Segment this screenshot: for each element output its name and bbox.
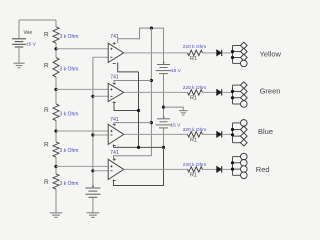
- svg-text:Blue: Blue: [258, 127, 273, 136]
- LED indicator 4 chain 4: [233, 174, 241, 176]
- battery V2 15 V positive supply: [163, 62, 165, 64]
- wire resistor to diode chain 3: [203, 133, 217, 135]
- diode D2: [217, 89, 222, 95]
- svg-text:R1: R1: [190, 137, 197, 143]
- op-amp U2 741: [108, 83, 124, 101]
- node junction J3: [54, 129, 57, 132]
- svg-text:R: R: [44, 63, 49, 70]
- wire diode to indicator bus chain 1: [222, 52, 233, 54]
- node V+ tap op3: [150, 121, 153, 124]
- LED indicator 3 chain 3: [233, 135, 241, 137]
- diode D1: [217, 50, 222, 56]
- svg-text:3 k Ohm: 3 k Ohm: [60, 148, 79, 154]
- svg-text:220 k Ohm: 220 k Ohm: [183, 85, 206, 91]
- svg-text:15 V: 15 V: [171, 123, 182, 129]
- svg-text:220 k Ohm: 220 k Ohm: [183, 127, 206, 133]
- LED indicator 2 chain 2: [233, 90, 241, 92]
- op-amp U3 741: [108, 124, 124, 144]
- wire op1 V+ to top rail: [118, 28, 164, 64]
- node junction J4: [54, 165, 57, 168]
- wire J1 to op1 + input: [56, 48, 109, 50]
- svg-text:Vee: Vee: [24, 30, 33, 36]
- svg-text:R1: R1: [190, 172, 197, 178]
- svg-text:R: R: [44, 32, 49, 39]
- node V- bus bottom: [137, 146, 140, 149]
- wire J2 to op2 + input: [56, 88, 109, 90]
- wire op1 V- to bus: [118, 63, 139, 72]
- svg-text:741: 741: [110, 117, 119, 123]
- wire op4 output: [124, 168, 188, 170]
- node indicator bus junction chain 3: [231, 128, 234, 131]
- diode D3: [217, 131, 222, 137]
- wire J3 to op3 + input: [56, 130, 109, 132]
- node bus tap op4: [91, 169, 94, 172]
- svg-text:220 k Ohm: 220 k Ohm: [183, 162, 206, 168]
- ground under input source: [87, 212, 100, 214]
- node V+ tap op2: [150, 79, 153, 82]
- LED indicator 2 chain 3: [233, 129, 241, 131]
- battery V1 Vee: [18, 20, 20, 38]
- wire indicator bus chain 3: [232, 123, 234, 143]
- node junction J1: [54, 47, 57, 50]
- diode D4: [217, 166, 222, 172]
- node bus tap op2: [91, 95, 94, 98]
- ground under V1: [13, 62, 24, 64]
- svg-text:15 V: 15 V: [26, 42, 37, 48]
- LED indicator 3 chain 4: [233, 168, 241, 170]
- wire indicator bus chain 1: [232, 46, 234, 64]
- wire op3 output: [124, 133, 188, 135]
- wire op4 V- return: [114, 147, 164, 185]
- LED indicator 4 chain 1: [233, 62, 241, 64]
- svg-text:R1: R1: [190, 95, 197, 101]
- wire from Vee battery to ladder top: [19, 19, 56, 21]
- LED indicator 1 chain 3: [233, 122, 241, 124]
- node V- bus tap op2: [137, 109, 140, 112]
- node indicator bus junction chain 3: [231, 133, 234, 136]
- wire inverting-input bus: [93, 56, 109, 58]
- LED indicator 4 chain 2: [233, 103, 241, 105]
- node bus tap op3: [91, 133, 94, 136]
- wire V+ tap to op3: [114, 123, 151, 125]
- wire V+ bus end to op4: [114, 156, 152, 160]
- svg-text:220 k Ohm: 220 k Ohm: [183, 44, 206, 50]
- node junction J2: [54, 88, 57, 91]
- svg-text:Yellow: Yellow: [260, 49, 282, 58]
- svg-text:R: R: [44, 107, 49, 114]
- battery V3 15 V negative supply: [163, 116, 165, 118]
- ground of supply midpoint: [179, 110, 188, 112]
- node indicator bus junction chain 1: [231, 50, 234, 53]
- ground under ladder: [50, 212, 63, 214]
- resistor R1 220 k Ohm chain 2: [188, 90, 203, 95]
- wire diode to indicator bus chain 2: [222, 91, 233, 93]
- op-amp U4 741: [108, 159, 124, 179]
- svg-text:15 V: 15 V: [171, 68, 182, 74]
- node indicator bus junction chain 4: [231, 161, 234, 164]
- node indicator bus junction chain 2: [231, 96, 234, 99]
- wire V+ bus: [150, 28, 152, 156]
- resistor R1 220 k Ohm chain 1: [188, 50, 203, 55]
- resistor R ladder 1 3 k Ohm: [53, 27, 59, 43]
- wire resistor to diode chain 4: [203, 168, 217, 170]
- wire midpoint to ground: [164, 107, 184, 110]
- node indicator bus junction chain 1: [231, 56, 234, 59]
- node top rail junction: [150, 27, 153, 30]
- resistor R ladder 4 3 k Ohm: [53, 142, 59, 157]
- svg-text:3 k Ohm: 3 k Ohm: [60, 112, 79, 118]
- node indicator bus junction chain 2: [231, 90, 234, 93]
- wire op2 output: [124, 91, 188, 93]
- svg-text:R1: R1: [190, 56, 197, 62]
- node supply midpoint: [162, 106, 165, 109]
- resistor R ladder 2 3 k Ohm: [53, 58, 59, 78]
- wire diode to indicator bus chain 3: [222, 133, 233, 135]
- svg-text:3 k Ohm: 3 k Ohm: [60, 34, 79, 40]
- LED indicator 2 chain 1: [233, 51, 241, 53]
- resistor R1 220 k Ohm chain 3: [188, 132, 203, 137]
- wire indicator bus chain 2: [232, 85, 234, 104]
- wire op2 V- to bus: [114, 102, 139, 111]
- resistor R1 220 k Ohm chain 4: [188, 167, 203, 172]
- wire op3 V- across to supply: [114, 146, 164, 148]
- svg-text:R: R: [44, 179, 49, 186]
- wire J4 to op4 + input: [56, 165, 109, 167]
- svg-text:Red: Red: [256, 165, 270, 174]
- LED indicator 3 chain 1: [233, 57, 241, 59]
- wire resistor to diode chain 1: [203, 52, 217, 54]
- resistor R ladder 3 3 k Ohm: [53, 104, 59, 121]
- svg-text:3 k Ohm: 3 k Ohm: [60, 67, 79, 73]
- svg-text:3 k Ohm: 3 k Ohm: [60, 181, 79, 187]
- LED indicator 1 chain 4: [233, 156, 241, 158]
- op-amp U1 741: [108, 43, 124, 62]
- battery V4 input source: [92, 185, 94, 187]
- wire op1 output: [124, 52, 188, 54]
- svg-text:Green: Green: [260, 86, 281, 95]
- node indicator bus junction chain 4: [231, 168, 234, 171]
- LED indicator 1 chain 1: [233, 45, 241, 47]
- svg-text:741: 741: [110, 75, 119, 81]
- resistor R ladder 5 3 k Ohm: [53, 174, 59, 189]
- wire V+ tap to op2: [114, 81, 151, 84]
- LED indicator 3 chain 2: [233, 97, 241, 99]
- wire indicator bus chain 4: [232, 157, 234, 176]
- LED indicator 1 chain 2: [233, 84, 241, 86]
- wire V- bus: [138, 72, 140, 147]
- LED indicator 4 chain 3: [233, 142, 241, 144]
- LED indicator 2 chain 4: [233, 162, 241, 164]
- wire ladder vertical segments: [55, 20, 57, 27]
- svg-text:R: R: [44, 141, 49, 148]
- wire resistor to diode chain 2: [203, 91, 217, 93]
- wire diode to indicator bus chain 4: [222, 168, 233, 170]
- node V- supply node: [162, 146, 165, 149]
